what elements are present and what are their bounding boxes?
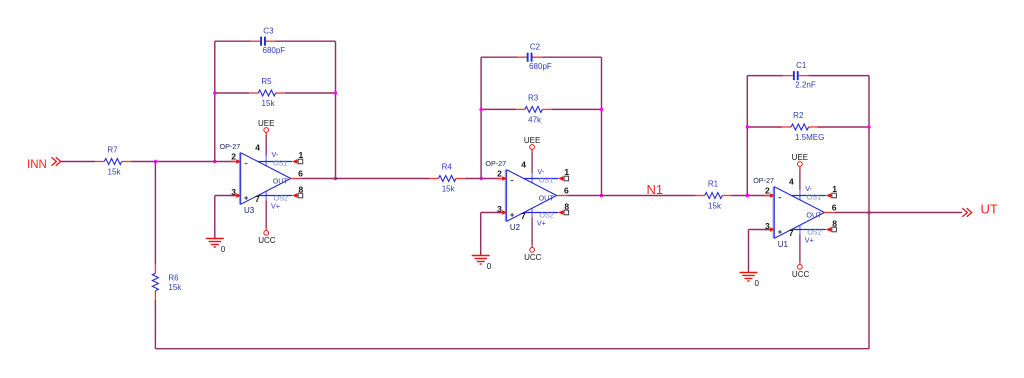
- wire FB3 resistor row right: [818, 126, 870, 128]
- svg-text:OUT: OUT: [806, 211, 822, 220]
- svg-text:N1: N1: [647, 182, 664, 197]
- wire FB3 top right segment: [808, 75, 869, 77]
- node junction input: [154, 160, 158, 164]
- capacitor C2 680pF: [517, 56, 527, 58]
- svg-text:UEE: UEE: [524, 136, 540, 145]
- op-amp U1 OP-27: [773, 187, 775, 239]
- svg-text:R3: R3: [528, 94, 539, 103]
- svg-text:4: 4: [255, 142, 260, 152]
- junction FB3 left: [746, 194, 750, 198]
- svg-text:R2: R2: [793, 111, 804, 120]
- svg-text:0: 0: [755, 279, 760, 288]
- svg-text:R1: R1: [708, 180, 719, 189]
- resistor R7 15k: [95, 161, 104, 163]
- svg-text:6: 6: [832, 202, 837, 212]
- svg-text:47k: 47k: [528, 116, 542, 125]
- wire FB2 top left segment: [481, 56, 517, 58]
- svg-text:R4: R4: [442, 163, 453, 172]
- svg-text:V+: V+: [537, 218, 546, 227]
- wire FB2 left vertical: [480, 57, 482, 178]
- svg-text:R7: R7: [107, 146, 118, 155]
- svg-text:OS2: OS2: [807, 227, 821, 236]
- svg-text:C3: C3: [263, 27, 274, 36]
- svg-text:OS1: OS1: [539, 176, 553, 185]
- wire right feedback riser / FB3 right vertical: [868, 76, 870, 349]
- wire INN to R7: [61, 161, 96, 163]
- wire FB2 resistor row left: [481, 108, 516, 110]
- wire FB1 left vertical: [214, 41, 216, 161]
- svg-text:OS2: OS2: [539, 210, 553, 219]
- svg-text:7: 7: [255, 194, 260, 204]
- svg-text:INN: INN: [27, 159, 47, 171]
- svg-text:C2: C2: [530, 43, 541, 52]
- resistor R3 47k: [516, 108, 525, 110]
- wire FB1 top right segment: [276, 40, 336, 42]
- svg-text:6: 6: [298, 168, 303, 178]
- resistor R5 15k: [249, 92, 258, 94]
- junction R2 left: [746, 125, 750, 129]
- power UEE / UCC stage1: [265, 132, 267, 135]
- svg-text:U1: U1: [778, 240, 789, 249]
- svg-text:OS2: OS2: [274, 193, 288, 202]
- svg-text:C1: C1: [796, 61, 807, 70]
- svg-text:V+: V+: [271, 201, 280, 210]
- svg-text:OP-27: OP-27: [753, 176, 774, 185]
- junction FB2 right at output: [600, 194, 604, 198]
- junction R5 right: [334, 91, 338, 95]
- wire U3 output to R4: [291, 178, 302, 180]
- resistor R2 1.5MEG: [782, 126, 791, 128]
- wire R1 to U1 pin2: [731, 195, 769, 197]
- wire R6 to bottom feedback wire: [154, 300, 156, 349]
- power UEE / UCC stage3: [799, 166, 801, 169]
- svg-text:OS1: OS1: [807, 193, 821, 202]
- svg-text:UCC: UCC: [258, 236, 276, 245]
- resistor R1 15k: [696, 195, 705, 197]
- svg-text:OP-27: OP-27: [485, 159, 506, 168]
- wire U1 pin3 to ground: [749, 229, 770, 231]
- svg-text:1: 1: [299, 150, 304, 160]
- junction R2 right: [867, 125, 871, 129]
- junction R3 right: [600, 108, 604, 112]
- svg-text:15k: 15k: [168, 283, 182, 292]
- op-amp U2 OP-27: [505, 170, 507, 222]
- svg-text:OP-27: OP-27: [220, 142, 241, 151]
- svg-text:UEE: UEE: [792, 153, 808, 162]
- wire FB3 left vertical: [746, 76, 748, 196]
- svg-text:U3: U3: [244, 206, 255, 215]
- resistor R4 15k: [430, 178, 439, 180]
- svg-text:15k: 15k: [442, 185, 456, 194]
- ground 0 stage3: [740, 272, 758, 274]
- ground 0 stage1: [206, 238, 224, 240]
- svg-text:8: 8: [832, 219, 837, 229]
- wire FB2 right vertical: [601, 57, 603, 195]
- wire FB3 top left segment: [747, 75, 783, 77]
- wire FB2 top right segment: [542, 56, 601, 58]
- svg-text:UEE: UEE: [258, 119, 274, 128]
- wire junction down to R6: [154, 162, 156, 265]
- node junction feedback1 left: [213, 160, 217, 164]
- wire FB1 right vertical: [335, 41, 337, 178]
- svg-text:2: 2: [497, 169, 502, 179]
- svg-text:4: 4: [521, 159, 526, 169]
- wire R4 to U2 pin2: [465, 178, 501, 180]
- svg-text:2.2nF: 2.2nF: [795, 80, 816, 89]
- svg-text:0: 0: [221, 245, 226, 254]
- svg-text:15k: 15k: [708, 202, 722, 211]
- wire R7 to U3 pin2: [131, 161, 236, 163]
- junction FB3 right at output: [867, 211, 871, 215]
- svg-text:1: 1: [564, 167, 569, 177]
- wire bottom feedback: [155, 348, 869, 350]
- svg-text:V-: V-: [805, 184, 812, 193]
- svg-text:6: 6: [564, 185, 569, 195]
- svg-text:UCC: UCC: [792, 270, 810, 279]
- wire FB1 resistor row left: [215, 92, 250, 94]
- junction FB2 left: [479, 177, 483, 181]
- svg-text:1.5MEG: 1.5MEG: [795, 133, 824, 142]
- svg-text:U2: U2: [510, 223, 521, 232]
- svg-text:V-: V-: [537, 167, 544, 176]
- svg-text:UCC: UCC: [524, 253, 542, 262]
- port UT: [962, 208, 971, 217]
- svg-text:V-: V-: [272, 150, 279, 159]
- wire U1 output to UT port: [825, 212, 836, 214]
- wire U2 output to R1 / node N1: [557, 195, 568, 197]
- svg-text:8: 8: [299, 185, 304, 195]
- svg-text:UT: UT: [981, 201, 998, 216]
- svg-text:OUT: OUT: [539, 194, 555, 203]
- svg-text:15k: 15k: [262, 99, 276, 108]
- wire FB1 top left segment: [215, 40, 251, 42]
- svg-text:7: 7: [789, 228, 794, 238]
- wire FB2 resistor row right: [551, 108, 601, 110]
- junction FB1 right at output: [334, 177, 338, 181]
- junction R3 left: [479, 108, 483, 112]
- svg-text:OUT: OUT: [273, 177, 289, 186]
- svg-text:8: 8: [564, 202, 569, 212]
- resistor R6 15k: [154, 264, 156, 273]
- wire U3 pin3 to ground: [215, 195, 236, 197]
- svg-text:R6: R6: [168, 273, 179, 282]
- op-amp U3 OP-27: [239, 153, 241, 205]
- svg-text:7: 7: [521, 211, 526, 221]
- svg-text:2: 2: [231, 152, 236, 162]
- svg-text:0: 0: [487, 262, 492, 271]
- svg-text:OS1: OS1: [273, 159, 287, 168]
- svg-text:1: 1: [832, 184, 837, 194]
- junction R5 left: [213, 91, 217, 95]
- wire U2 pin3 to ground: [481, 212, 502, 214]
- svg-text:2: 2: [765, 186, 770, 196]
- svg-text:R5: R5: [261, 77, 272, 86]
- wire FB1 resistor row right: [285, 92, 336, 94]
- svg-text:15k: 15k: [108, 168, 122, 177]
- svg-text:680pF: 680pF: [263, 46, 286, 55]
- capacitor C1 2.2nF: [783, 75, 793, 77]
- svg-text:4: 4: [789, 176, 794, 186]
- wire FB3 resistor row left: [747, 126, 782, 128]
- svg-text:V+: V+: [805, 235, 814, 244]
- power UEE / UCC stage2: [531, 149, 533, 152]
- ground 0 stage2: [472, 255, 490, 257]
- capacitor C3 680pF: [251, 40, 261, 42]
- svg-text:680pF: 680pF: [529, 62, 552, 71]
